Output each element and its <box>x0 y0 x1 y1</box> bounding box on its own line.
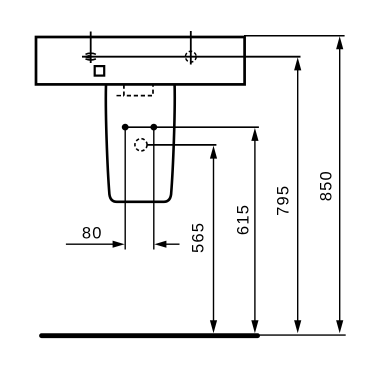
svg-text:80: 80 <box>82 225 103 243</box>
svg-text:565: 565 <box>190 222 208 253</box>
svg-text:850: 850 <box>318 170 336 201</box>
svg-text:795: 795 <box>275 185 293 216</box>
svg-text:615: 615 <box>235 204 253 235</box>
